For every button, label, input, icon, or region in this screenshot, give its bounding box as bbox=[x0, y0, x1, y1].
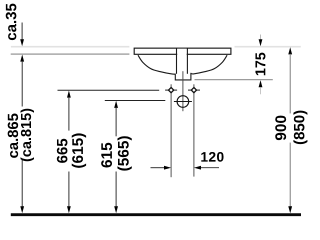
label 900 bbox=[275, 116, 286, 141]
dimension 665 line upper segment with up arrow bbox=[67, 91, 71, 98]
right faucet cross diamond bbox=[191, 88, 196, 93]
extension line 665 level bbox=[58, 89, 160, 91]
label 665 bbox=[57, 139, 68, 163]
dimension 900 line lower segment with down arrow bbox=[289, 143, 291, 208]
label ca.35 bbox=[6, 4, 17, 41]
dimension 175 top outside arrow bbox=[260, 35, 262, 40]
drain circle symbol bbox=[177, 96, 189, 108]
dimension 175 bottom outside arrow bbox=[259, 80, 263, 87]
drain circle horizontal arm bbox=[174, 101, 192, 103]
label 120 bbox=[201, 152, 223, 162]
left faucet cross horizontal bar bbox=[165, 89, 177, 91]
label (565) bbox=[117, 136, 131, 170]
dimension ca.865 line lower segment with down arrow bbox=[21, 160, 23, 208]
right faucet cross horizontal bar bbox=[188, 89, 200, 91]
dimension ca.865 line upper segment with up arrow bbox=[20, 55, 24, 62]
basin rim bbox=[134, 48, 231, 54]
extension line 615 level bbox=[105, 100, 166, 102]
label 615 bbox=[101, 143, 112, 168]
label (615) bbox=[72, 133, 86, 167]
label ca.865 bbox=[8, 114, 18, 158]
dimension 615 line upper segment with up arrow bbox=[114, 101, 118, 108]
floor line bbox=[11, 213, 301, 216]
drain column left line bbox=[176, 48, 178, 74]
label (ca.815) bbox=[20, 109, 34, 162]
dimension 665 line lower segment with down arrow bbox=[68, 172, 70, 208]
countertop top surface line right bbox=[235, 46, 301, 48]
countertop top surface line left bbox=[11, 46, 129, 48]
label 175 bbox=[255, 53, 265, 76]
dimension 120 right arrow segment bbox=[200, 167, 220, 169]
dimension 900 line upper segment with up arrow bbox=[288, 47, 292, 54]
drain centerline bbox=[182, 71, 184, 111]
right faucet cross vertical line bbox=[193, 84, 195, 176]
dimension 120 left arrow segment bbox=[151, 167, 167, 169]
drain column right line bbox=[186, 48, 188, 74]
left faucet cross diamond bbox=[169, 88, 174, 93]
left faucet cross vertical line bbox=[170, 84, 172, 177]
bowl right curve bbox=[191, 55, 228, 74]
drain column erase rim bottom bbox=[177, 49, 187, 73]
dimension ca.35 upper arrow line bbox=[21, 23, 23, 41]
bowl left curve bbox=[138, 55, 175, 74]
label (850) bbox=[293, 111, 307, 145]
extension line 175 bottom level bbox=[195, 79, 273, 81]
drain fitting U bbox=[175, 73, 191, 80]
dimension 615 line lower segment with down arrow bbox=[115, 172, 117, 208]
countertop bottom surface line bbox=[11, 53, 130, 55]
